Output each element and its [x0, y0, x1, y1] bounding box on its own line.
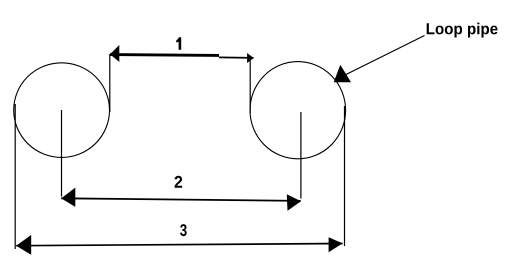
dimension line 3: [16, 244, 342, 246]
dimension line 1: [110, 55, 254, 58]
right inner extension line: [249, 58, 251, 113]
right circle center line: [300, 112, 302, 199]
dimension 3 left arrowhead: [16, 235, 31, 255]
right outer extension line: [344, 106, 346, 246]
leader line to Loop pipe label: [346, 36, 425, 75]
dimension line 2: [61, 198, 301, 201]
dimension 1 left arrowhead: [110, 45, 119, 62]
leader arrowhead: [334, 65, 351, 83]
dimension 2 left arrowhead: [61, 188, 75, 207]
label 2: [175, 176, 183, 188]
dimension 1 right arrowhead: [247, 53, 254, 63]
dimension 2 right arrowhead: [287, 194, 301, 211]
dimension 3 right arrowhead: [329, 237, 343, 252]
left circle center line: [61, 110, 63, 197]
label 3: [180, 224, 187, 236]
left outer extension line: [14, 104, 16, 249]
label 1: [176, 37, 181, 50]
left loop circle: [14, 63, 110, 158]
left inner extension line: [109, 54, 111, 112]
Loop pipe label: [427, 23, 498, 38]
right loop circle: [250, 62, 346, 159]
